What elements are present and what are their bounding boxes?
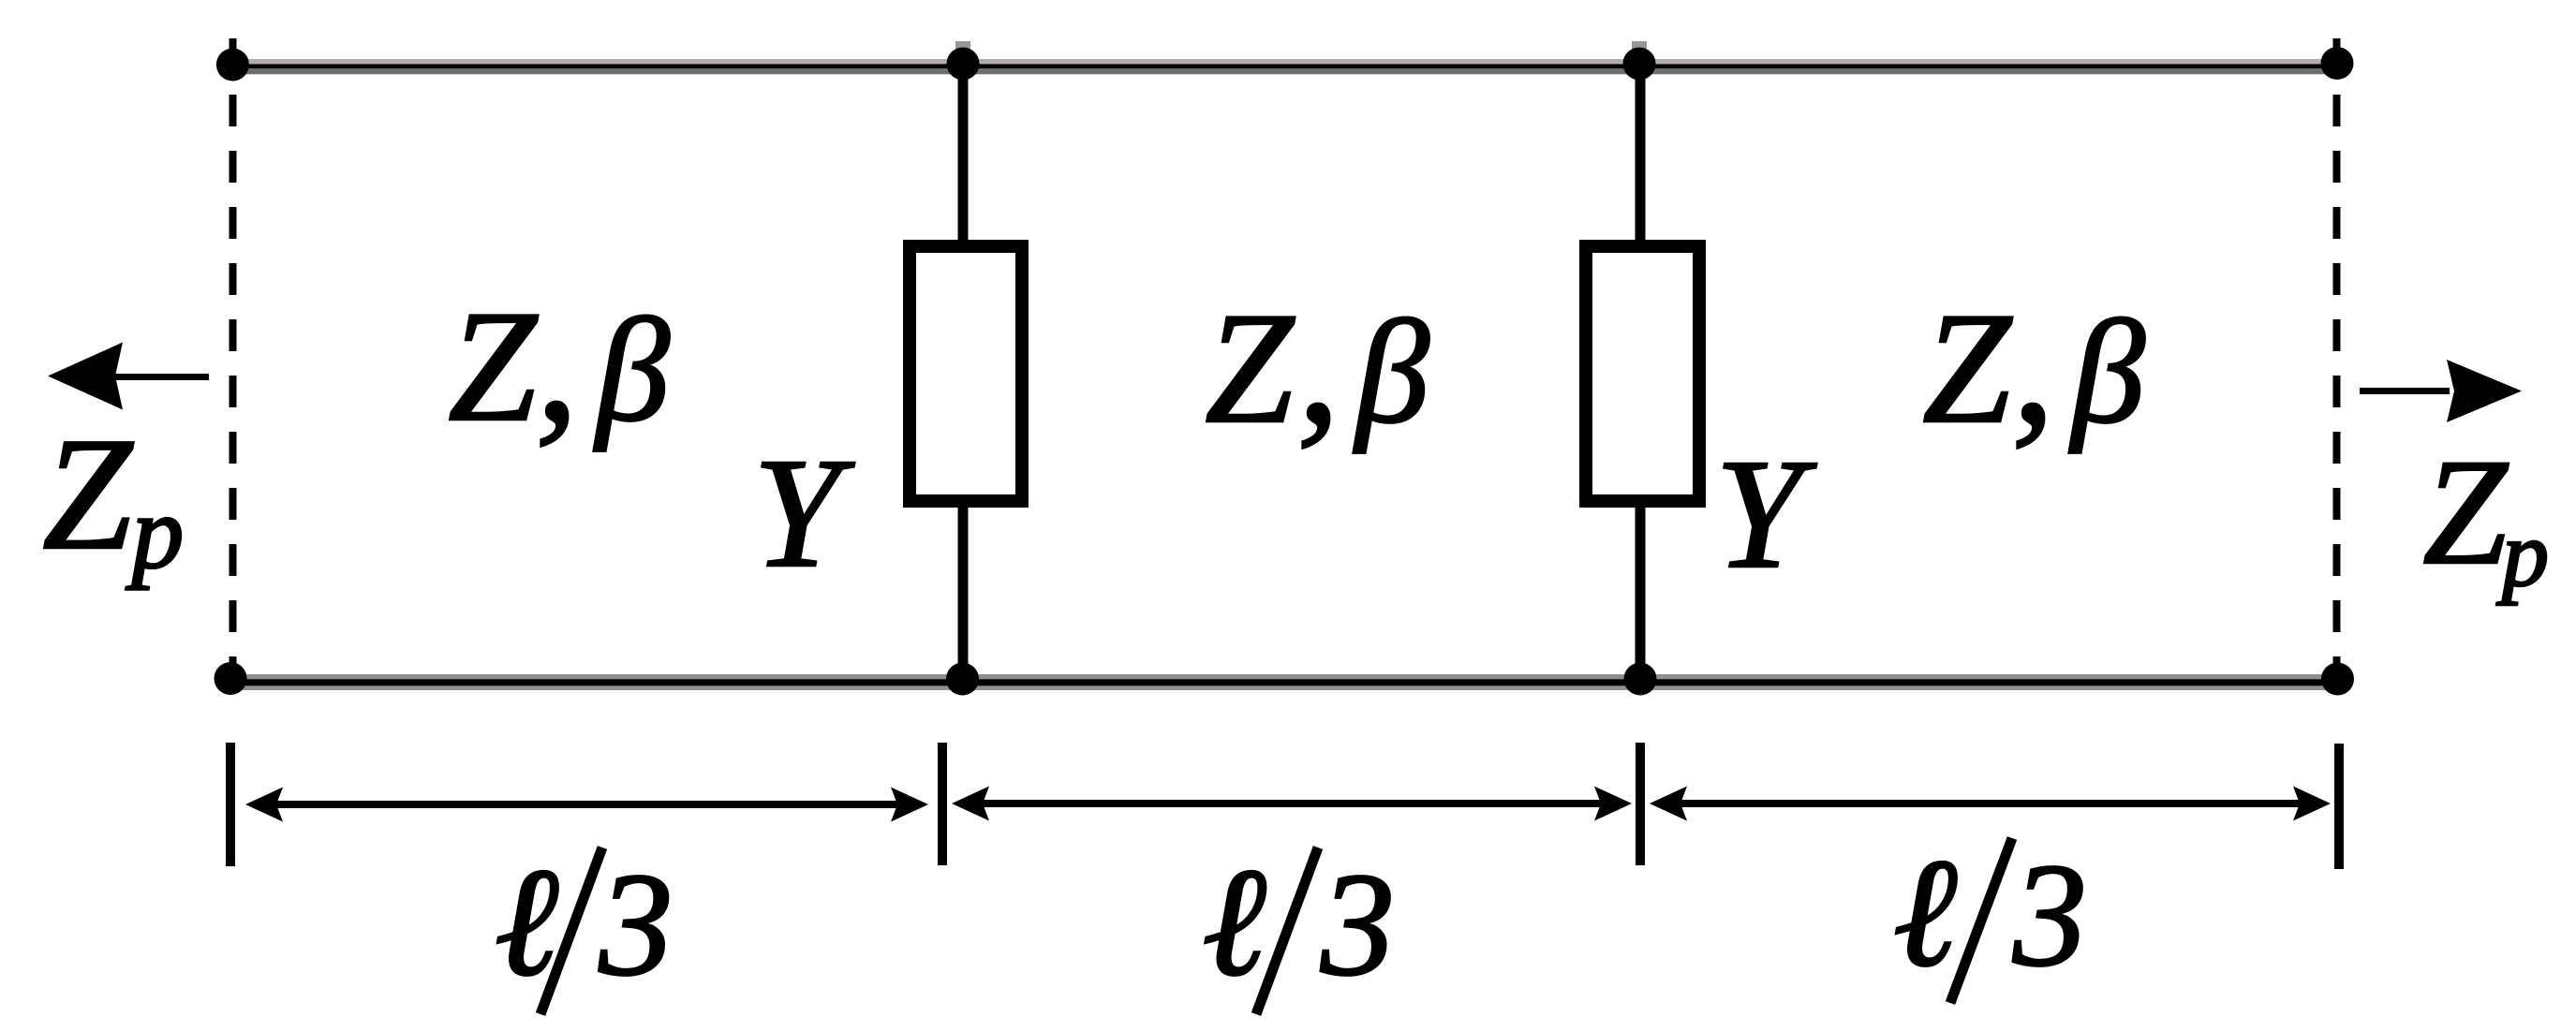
label Z,beta section 1 [448, 266, 670, 458]
dimension arrow segment 1 [245, 788, 928, 822]
node bottom-1 [946, 663, 979, 696]
svg-text:Z: Z [448, 278, 538, 454]
shunt element Y2 (rectangle) [1586, 246, 1699, 501]
dashed reference plane right [2333, 38, 2341, 679]
node top-left [216, 49, 249, 81]
svg-text:β: β [593, 288, 670, 452]
wire top conductor [232, 59, 2338, 74]
node bottom-left [215, 662, 247, 695]
svg-text:Z: Z [1922, 280, 2012, 456]
wire shunt 2 upper [1636, 64, 1646, 242]
svg-text:β: β [2068, 290, 2145, 454]
svg-text:,: , [1297, 268, 1340, 460]
node top-1 [947, 48, 980, 81]
svg-text:p: p [126, 476, 185, 591]
svg-text:ℓ: ℓ [1893, 827, 1958, 998]
dashed reference plane left [229, 38, 237, 679]
svg-text:Z: Z [1205, 280, 1295, 456]
svg-text:3: 3 [599, 843, 674, 1007]
label Z,beta section 2 [1205, 268, 1429, 460]
svg-text:Y: Y [753, 426, 855, 600]
label l/3 section 3 [1893, 827, 2087, 1003]
label Y2 [1715, 427, 1817, 601]
wire bottom conductor [229, 674, 2339, 690]
svg-text:Z: Z [42, 405, 134, 583]
dimension tick left [226, 743, 235, 866]
svg-text:3: 3 [2012, 833, 2087, 997]
dimension arrow segment 3 [1650, 787, 2331, 821]
node bottom-2 [1624, 663, 1657, 696]
svg-text:p: p [2496, 502, 2549, 606]
dimension arrow segment 2 [952, 787, 1632, 821]
node top-2 stub [1632, 41, 1647, 51]
dimension tick 1 [938, 743, 947, 865]
label l/3 section 2 [1202, 836, 1395, 1014]
label Z,beta section 3 [1922, 268, 2145, 460]
wire shunt 1 upper [958, 64, 969, 242]
node top-2 [1623, 48, 1656, 81]
dimension tick 2 [1636, 743, 1645, 865]
node bottom-right [2321, 663, 2354, 696]
node top-right [2321, 47, 2354, 80]
label Y1 [753, 426, 855, 600]
svg-text:Y: Y [1715, 427, 1817, 601]
dimension tick right [2334, 744, 2344, 869]
wire shunt 1 lower [958, 506, 969, 682]
svg-text:3: 3 [1320, 843, 1395, 1007]
shunt element Y1 (rectangle) [910, 246, 1022, 501]
arrow Zp right [2360, 360, 2522, 422]
node top-1 stub [955, 41, 970, 51]
arrow Zp left [48, 343, 209, 410]
svg-text:ℓ: ℓ [1202, 836, 1266, 1008]
svg-text:β: β [1353, 290, 1429, 454]
svg-text:,: , [536, 266, 579, 458]
svg-text:Z: Z [2422, 429, 2509, 597]
wire shunt 2 lower [1636, 506, 1646, 682]
label l/3 section 1 [495, 836, 674, 1014]
label Zp left [42, 405, 184, 591]
svg-text:,: , [2012, 268, 2055, 460]
label Zp right [2422, 429, 2549, 606]
